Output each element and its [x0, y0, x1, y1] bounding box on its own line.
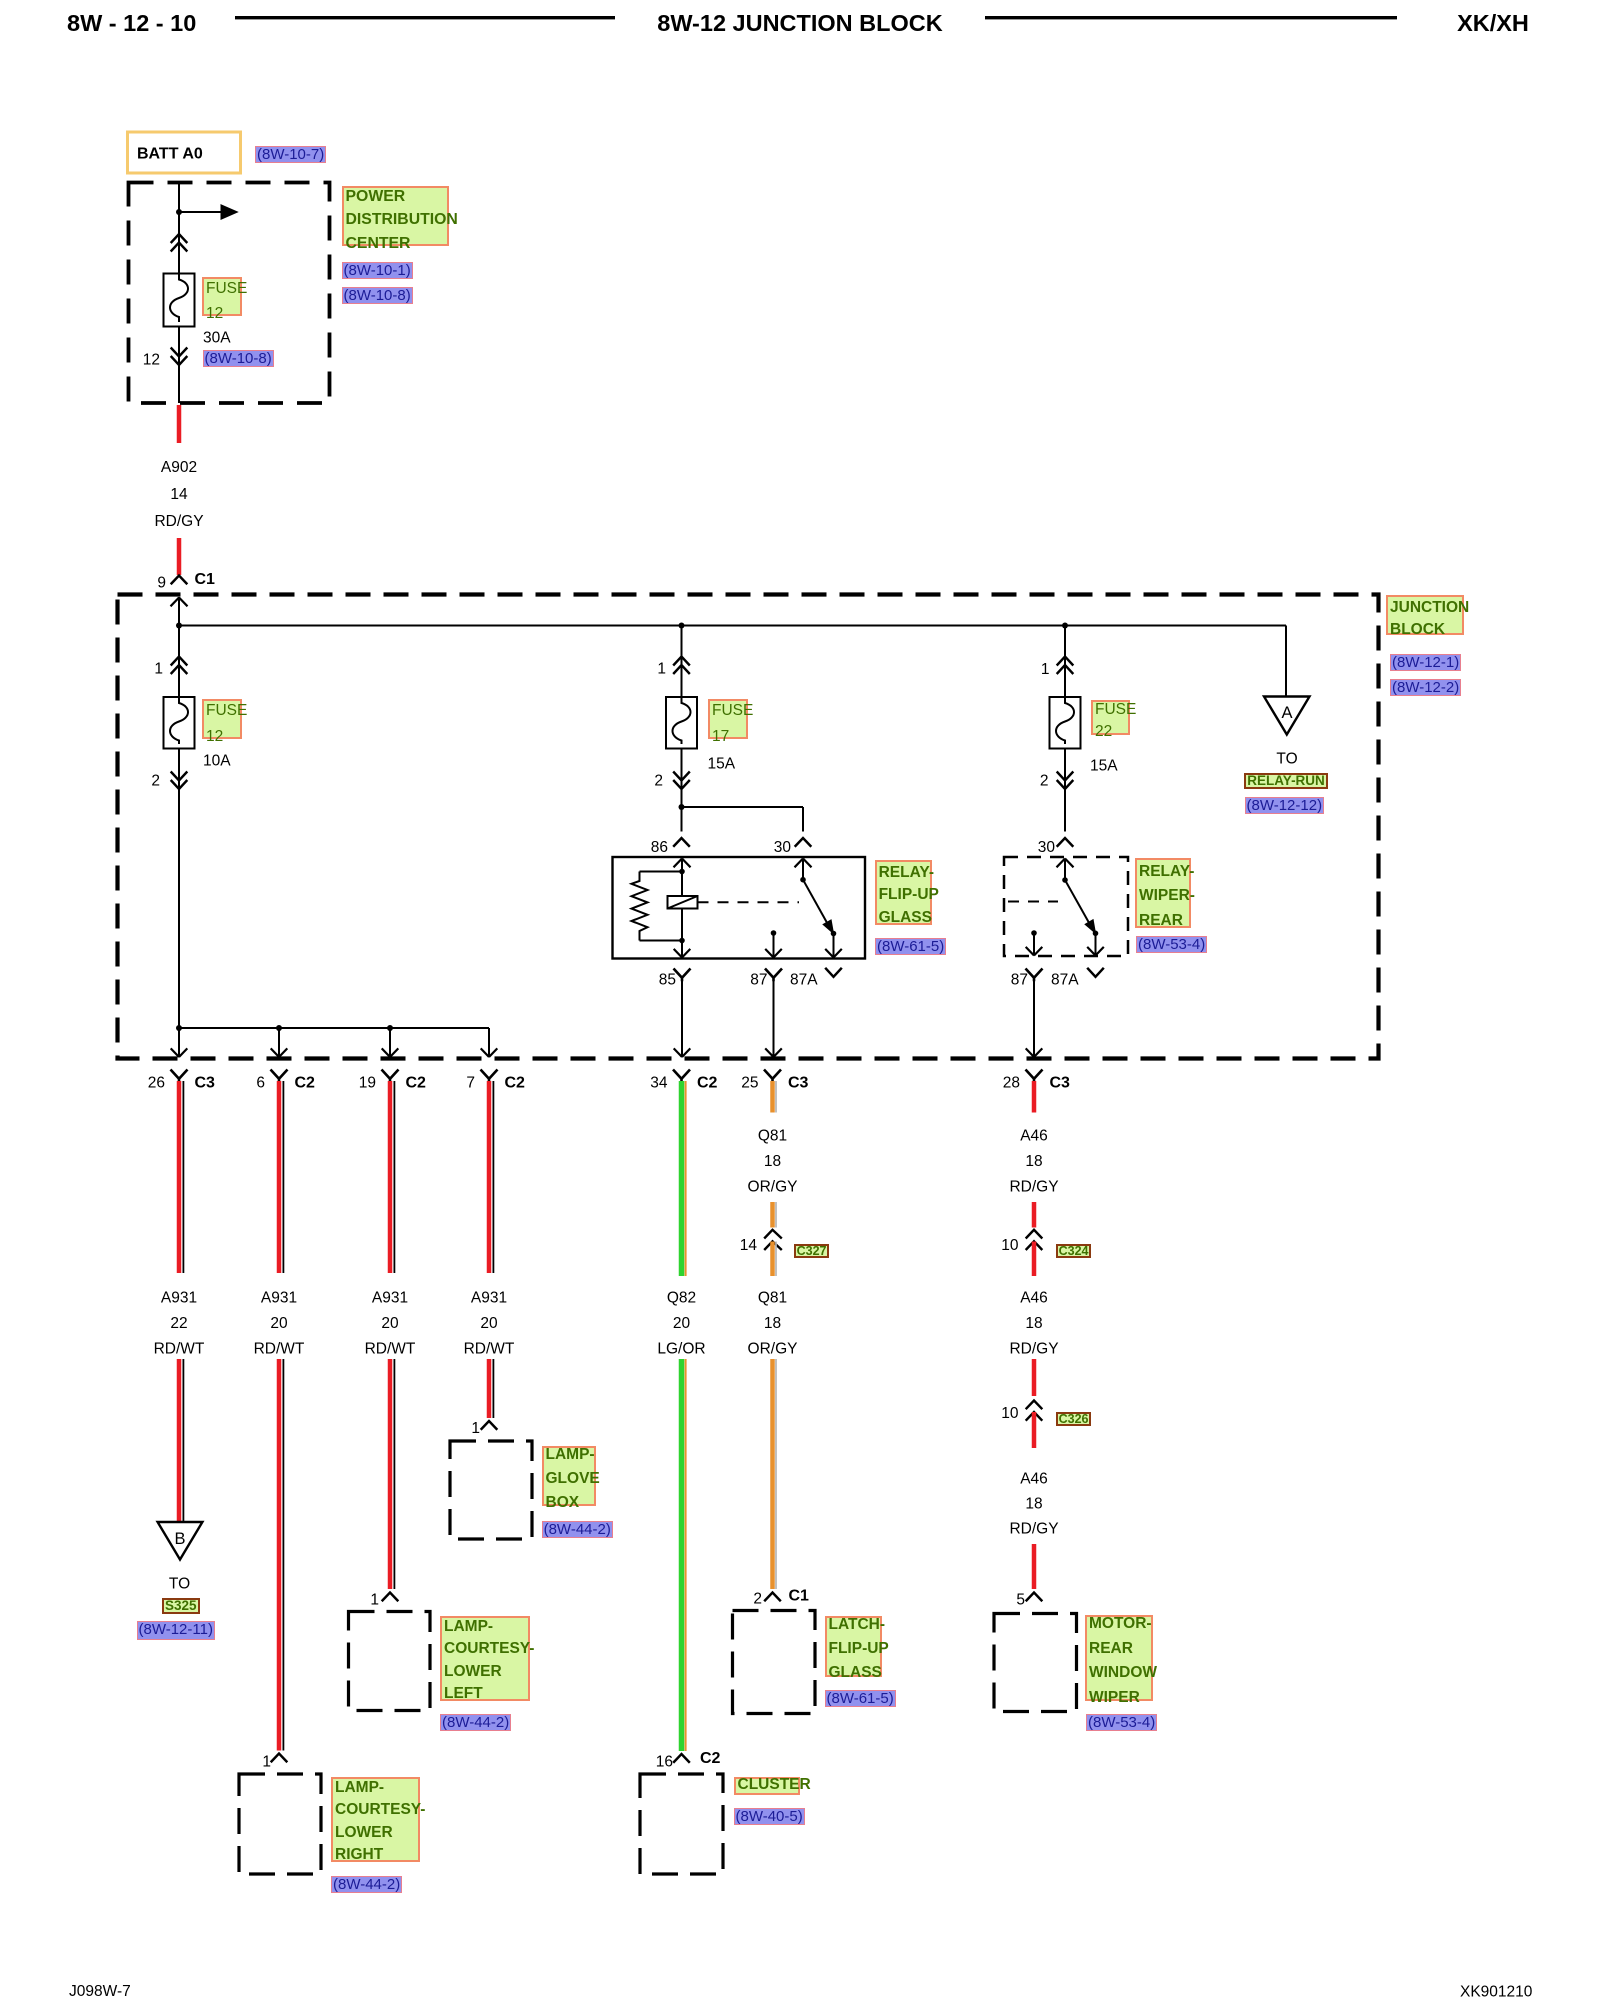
svg-text:86: 86	[651, 839, 668, 856]
svg-text:RD/WT: RD/WT	[154, 1341, 205, 1358]
svg-text:5: 5	[1016, 1592, 1025, 1609]
svg-text:87: 87	[1011, 972, 1028, 989]
svg-text:87A: 87A	[1051, 972, 1079, 989]
svg-text:Q82: Q82	[667, 1290, 696, 1307]
svg-text:A902: A902	[161, 459, 197, 476]
svg-text:12: 12	[143, 352, 160, 369]
svg-text:Q81: Q81	[758, 1128, 787, 1145]
svg-text:9: 9	[157, 575, 166, 592]
svg-text:2: 2	[654, 773, 663, 790]
svg-text:C1: C1	[789, 1588, 810, 1605]
svg-text:RD/WT: RD/WT	[464, 1341, 515, 1358]
svg-text:8W - 12 - 10: 8W - 12 - 10	[67, 10, 196, 36]
svg-text:1: 1	[471, 1420, 480, 1437]
svg-text:XK/XH: XK/XH	[1457, 10, 1529, 36]
svg-text:30A: 30A	[203, 330, 231, 347]
svg-text:16: 16	[656, 1754, 673, 1771]
svg-text:1: 1	[262, 1754, 271, 1771]
svg-text:RD/WT: RD/WT	[365, 1341, 416, 1358]
svg-text:15A: 15A	[1090, 758, 1118, 775]
svg-text:OR/GY: OR/GY	[748, 1341, 798, 1358]
svg-text:2: 2	[1040, 773, 1049, 790]
svg-text:TO: TO	[169, 1576, 190, 1593]
svg-text:87: 87	[750, 972, 767, 989]
svg-text:20: 20	[270, 1315, 288, 1332]
svg-text:22: 22	[170, 1315, 187, 1332]
svg-text:1: 1	[657, 661, 666, 678]
svg-text:20: 20	[381, 1315, 399, 1332]
svg-text:18: 18	[764, 1153, 781, 1170]
svg-text:TO: TO	[1276, 751, 1297, 768]
svg-text:C3: C3	[788, 1075, 809, 1092]
svg-text:C2: C2	[700, 1750, 721, 1767]
svg-text:C3: C3	[195, 1075, 216, 1092]
svg-text:J098W-7: J098W-7	[69, 1983, 131, 2000]
svg-text:LG/OR: LG/OR	[657, 1341, 705, 1358]
svg-text:19: 19	[359, 1075, 376, 1092]
svg-text:A931: A931	[471, 1290, 507, 1307]
svg-text:14: 14	[740, 1237, 758, 1254]
svg-text:A931: A931	[261, 1290, 297, 1307]
svg-text:15A: 15A	[708, 756, 736, 773]
svg-text:87A: 87A	[790, 972, 818, 989]
svg-text:RD/GY: RD/GY	[1009, 1179, 1058, 1196]
svg-text:18: 18	[764, 1315, 781, 1332]
svg-text:20: 20	[673, 1315, 691, 1332]
svg-text:A46: A46	[1020, 1128, 1048, 1145]
svg-text:10A: 10A	[203, 753, 231, 770]
svg-text:C2: C2	[505, 1075, 526, 1092]
svg-text:8W-12 JUNCTION BLOCK: 8W-12 JUNCTION BLOCK	[657, 10, 942, 36]
svg-text:18: 18	[1025, 1153, 1042, 1170]
svg-text:A46: A46	[1020, 1471, 1048, 1488]
svg-text:1: 1	[154, 661, 163, 678]
svg-text:C2: C2	[697, 1075, 718, 1092]
svg-text:B: B	[174, 1530, 185, 1548]
svg-text:10: 10	[1001, 1405, 1019, 1422]
svg-text:A931: A931	[372, 1290, 408, 1307]
svg-text:25: 25	[741, 1075, 758, 1092]
svg-text:C2: C2	[406, 1075, 427, 1092]
svg-text:18: 18	[1025, 1496, 1042, 1513]
svg-text:RD/GY: RD/GY	[1009, 1521, 1058, 1538]
svg-text:RD/WT: RD/WT	[254, 1341, 305, 1358]
svg-text:18: 18	[1025, 1315, 1042, 1332]
svg-text:BATT A0: BATT A0	[137, 146, 203, 163]
svg-text:30: 30	[1038, 839, 1056, 856]
svg-text:OR/GY: OR/GY	[748, 1179, 798, 1196]
svg-text:1: 1	[370, 1592, 379, 1609]
svg-text:RD/GY: RD/GY	[1009, 1341, 1058, 1358]
svg-text:A931: A931	[161, 1290, 197, 1307]
svg-text:20: 20	[480, 1315, 498, 1332]
svg-text:1: 1	[1041, 661, 1050, 678]
svg-text:2: 2	[151, 773, 160, 790]
svg-text:7: 7	[466, 1075, 475, 1092]
svg-text:10: 10	[1001, 1237, 1019, 1254]
svg-text:85: 85	[659, 972, 676, 989]
svg-text:C2: C2	[295, 1075, 316, 1092]
svg-text:30: 30	[774, 839, 792, 856]
svg-text:A: A	[1281, 704, 1292, 722]
svg-text:2: 2	[753, 1591, 762, 1608]
svg-text:XK901210: XK901210	[1460, 1984, 1533, 2000]
svg-text:C1: C1	[195, 571, 216, 588]
svg-text:C3: C3	[1050, 1075, 1071, 1092]
svg-text:Q81: Q81	[758, 1290, 787, 1307]
svg-text:26: 26	[148, 1075, 165, 1092]
svg-text:34: 34	[650, 1075, 668, 1092]
svg-text:28: 28	[1003, 1075, 1020, 1092]
svg-text:14: 14	[170, 486, 188, 503]
svg-text:RD/GY: RD/GY	[154, 513, 203, 530]
svg-text:A46: A46	[1020, 1290, 1048, 1307]
svg-text:6: 6	[256, 1075, 265, 1092]
